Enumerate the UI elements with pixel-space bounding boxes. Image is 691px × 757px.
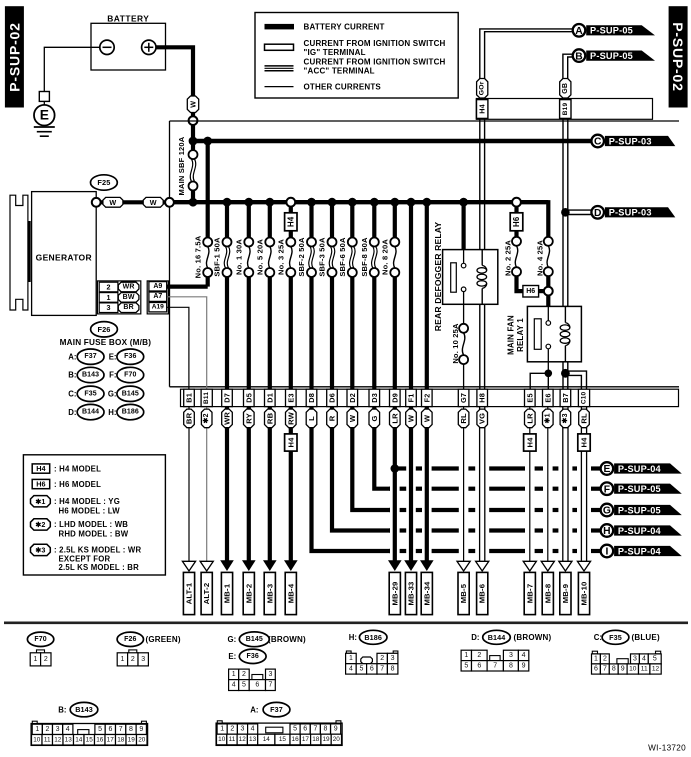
wire F1 column to MB-33 (thick) xyxy=(409,407,413,561)
svg-text:ALT-1: ALT-1 xyxy=(185,582,194,604)
wire G7 column to MB-5 xyxy=(463,407,465,562)
svg-text:F36: F36 xyxy=(124,353,136,360)
svg-text:B19: B19 xyxy=(562,103,569,116)
svg-text:SBF-1 50A: SBF-1 50A xyxy=(213,237,222,277)
arrow to MB-34 xyxy=(420,560,434,571)
svg-text:1: 1 xyxy=(349,655,353,662)
svg-text:P-SUP-05: P-SUP-05 xyxy=(590,26,633,36)
wire relay output to E5/E6 xyxy=(530,373,548,389)
svg-text:BATTERY: BATTERY xyxy=(107,13,149,23)
connector F26 pinout xyxy=(129,650,137,653)
svg-text:(BROWN): (BROWN) xyxy=(268,635,306,644)
svg-text:2: 2 xyxy=(242,671,246,678)
svg-text:D5: D5 xyxy=(244,393,253,403)
svg-text:B1: B1 xyxy=(185,393,194,403)
svg-text:B11: B11 xyxy=(203,392,210,404)
svg-text:L: L xyxy=(307,416,316,421)
svg-text:H: H xyxy=(603,526,610,537)
svg-text:E:: E: xyxy=(228,652,236,661)
svg-text:W: W xyxy=(348,414,357,422)
svg-text:G:: G: xyxy=(108,390,117,399)
svg-text:W: W xyxy=(407,414,416,422)
svg-text:8: 8 xyxy=(324,726,328,733)
svg-text:E: E xyxy=(603,464,610,475)
wire B1 column to ALT-1 xyxy=(188,407,190,562)
svg-text:WR: WR xyxy=(123,284,135,291)
pin H8 / wire color VG xyxy=(477,389,488,406)
svg-text:P-SUP-02: P-SUP-02 xyxy=(670,22,686,91)
svg-text:P-SUP-04: P-SUP-04 xyxy=(618,464,662,474)
svg-text:B:: B: xyxy=(68,371,76,380)
svg-text:No. 8 20A: No. 8 20A xyxy=(381,239,390,275)
svg-text:8: 8 xyxy=(612,666,616,673)
svg-text:RL: RL xyxy=(459,413,468,424)
svg-text:F25: F25 xyxy=(97,178,110,187)
svg-text:OTHER CURRENTS: OTHER CURRENTS xyxy=(304,82,382,91)
svg-text:11: 11 xyxy=(641,666,648,673)
generator GENERATOR box xyxy=(32,192,97,316)
wire IG double line B19/GB to D arrow and coil xyxy=(562,119,564,306)
svg-text:2: 2 xyxy=(131,656,135,663)
svg-text:BATTERY CURRENT: BATTERY CURRENT xyxy=(304,23,385,32)
svg-text:MB-9: MB-9 xyxy=(561,584,570,604)
svg-text:D8: D8 xyxy=(307,393,316,403)
svg-text:RL: RL xyxy=(580,413,589,424)
svg-text:5: 5 xyxy=(242,682,246,689)
svg-text:MAIN SBF 120A: MAIN SBF 120A xyxy=(177,136,186,195)
wire battery positive (thick) xyxy=(156,47,193,97)
svg-text:B143: B143 xyxy=(75,705,93,714)
svg-text:REAR DEFOGGER RELAY: REAR DEFOGGER RELAY xyxy=(433,222,443,332)
wire IG double line GOr/H4 to defogger coil xyxy=(479,119,481,249)
svg-text:B144: B144 xyxy=(488,633,506,642)
svg-text:5: 5 xyxy=(359,665,363,672)
svg-text:2: 2 xyxy=(44,656,48,663)
legend ACC current sample xyxy=(265,65,294,67)
bus wire battery current lower (thick) xyxy=(171,200,548,204)
svg-text:H6: H6 xyxy=(526,288,535,295)
wire C10 double column to MB-10 xyxy=(580,407,582,562)
arrow to MB-33 xyxy=(404,560,418,571)
arrow to ALT-1 xyxy=(182,561,195,571)
svg-text:1: 1 xyxy=(594,655,598,662)
svg-text:W: W xyxy=(422,414,431,422)
wire to arrow I (thick) xyxy=(389,549,390,553)
svg-text:✱3: ✱3 xyxy=(561,413,569,423)
arrow to MB-6 xyxy=(476,561,489,571)
svg-text:2: 2 xyxy=(45,726,49,733)
svg-text:D3: D3 xyxy=(370,393,379,403)
svg-text:6: 6 xyxy=(370,665,374,672)
wire to arrow H (thick) xyxy=(389,528,390,532)
wire A9 to fuse No.16 (thick) xyxy=(167,285,208,289)
wire F2 column to MB-34 (thick) xyxy=(425,407,429,561)
pin D9 / wire color LR xyxy=(390,389,401,406)
svg-text:8: 8 xyxy=(391,665,395,672)
svg-text:No. 1 30A: No. 1 30A xyxy=(235,239,244,275)
M/B top connector band xyxy=(476,99,652,120)
fuse SBF-3 50A column D6 xyxy=(330,202,334,238)
wire IG double line to arrow A xyxy=(480,29,573,79)
legend IG current sample xyxy=(265,44,294,50)
wire E5 column to MB-7 xyxy=(529,407,531,562)
pin D1 / wire color RB xyxy=(265,389,276,406)
wire D2 column corner to arrow G (thick) xyxy=(352,407,390,510)
svg-text:5: 5 xyxy=(98,726,102,733)
svg-text:A: A xyxy=(575,26,583,37)
wire D8 column corner to arrow I (thick) xyxy=(312,407,391,551)
arrow F P-SUP-05 xyxy=(614,484,682,494)
svg-text:3: 3 xyxy=(633,655,637,662)
svg-text:16: 16 xyxy=(96,736,104,743)
pin H4 top band xyxy=(477,100,488,119)
svg-text:D:: D: xyxy=(471,633,479,642)
svg-text:11: 11 xyxy=(229,736,236,743)
svg-text:B186: B186 xyxy=(122,409,139,416)
svg-text:9: 9 xyxy=(621,666,625,673)
svg-text:MAIN FAN: MAIN FAN xyxy=(507,315,516,355)
fuse SBF-6 50A column D2 xyxy=(350,202,354,238)
svg-text:7: 7 xyxy=(268,682,272,689)
svg-text:: LHD MODEL : WB: : LHD MODEL : WB xyxy=(54,520,128,529)
pin F1 / wire color W xyxy=(406,389,417,406)
node open circle No.4/H6 join xyxy=(544,287,553,296)
svg-text:3: 3 xyxy=(56,726,60,733)
svg-text:✱2: ✱2 xyxy=(35,520,45,529)
svg-text:10: 10 xyxy=(33,736,41,743)
svg-text:RELAY 1: RELAY 1 xyxy=(516,318,525,352)
svg-text:MB-8: MB-8 xyxy=(543,583,552,603)
svg-text:H:: H: xyxy=(349,633,357,642)
svg-text:LR: LR xyxy=(390,413,399,424)
legend other currents sample xyxy=(265,86,294,88)
connector F25 oval xyxy=(91,175,118,190)
wire B7 double column to MB-9 xyxy=(562,407,564,562)
svg-text:MB-34: MB-34 xyxy=(422,581,431,606)
pin D8 / wire color L xyxy=(306,389,317,406)
svg-text:✱1: ✱1 xyxy=(35,497,45,506)
arrow A P-SUP-05 xyxy=(586,25,655,35)
junction dot B19 to B7/C10 xyxy=(561,369,570,378)
generator connector pins A9/A7/A19 xyxy=(147,281,168,314)
pin D2 / wire color W xyxy=(347,389,358,406)
arrow to MB-29 xyxy=(388,560,402,571)
relay coil rear defogger on H8 line xyxy=(481,250,483,266)
svg-text:SBF-6 50A: SBF-6 50A xyxy=(338,237,347,277)
svg-text:A:: A: xyxy=(250,706,258,715)
svg-text:RY: RY xyxy=(244,413,253,424)
fuse SBF-8 50A column D3 xyxy=(372,202,376,238)
fuse SBF-1 50A column D7 xyxy=(225,202,229,238)
fuse No. 1 30A column D5 xyxy=(247,202,251,238)
svg-text:No. 4 25A: No. 4 25A xyxy=(536,240,545,276)
svg-text:9: 9 xyxy=(522,662,526,669)
connector F26 oval xyxy=(91,322,118,337)
svg-text:D: D xyxy=(594,208,601,219)
svg-text:F: F xyxy=(604,484,610,495)
svg-text:No. 5 20A: No. 5 20A xyxy=(256,239,265,275)
wire D5 column to MB-2 (thick) xyxy=(247,407,251,561)
relay coil main fan on B19 line xyxy=(564,306,566,322)
fuse No. 10 25A xyxy=(463,304,465,324)
wire D7 column to MB-1 (thick) xyxy=(225,407,229,561)
wire H8 double column to MB-6 xyxy=(479,407,481,562)
svg-text:C:: C: xyxy=(68,390,76,399)
svg-text:3: 3 xyxy=(509,652,513,659)
svg-text:MB-29: MB-29 xyxy=(390,581,399,605)
svg-text:E3: E3 xyxy=(286,393,295,402)
svg-text:1: 1 xyxy=(220,726,224,733)
svg-text:14: 14 xyxy=(263,736,271,743)
svg-text:BW: BW xyxy=(123,294,135,301)
svg-text:6: 6 xyxy=(477,662,481,669)
connector F36 pinout xyxy=(229,669,239,680)
model box H4 on E5 column xyxy=(524,434,536,451)
svg-text:1: 1 xyxy=(232,671,236,678)
svg-text:D:: D: xyxy=(68,408,76,417)
pin E3 / wire color RW xyxy=(286,389,297,406)
svg-text:✱2: ✱2 xyxy=(202,413,210,423)
pin F2 / wire color W xyxy=(422,389,433,406)
svg-text:14: 14 xyxy=(75,736,83,743)
svg-text:5: 5 xyxy=(293,726,297,733)
pin D3 / wire color G xyxy=(369,389,380,406)
svg-text:F26: F26 xyxy=(124,636,136,643)
svg-text:4: 4 xyxy=(522,652,526,659)
ground E xyxy=(39,92,49,102)
legend star2 xyxy=(31,519,51,530)
svg-text:GOr: GOr xyxy=(479,81,486,95)
svg-text:B143: B143 xyxy=(82,372,99,379)
svg-text:10: 10 xyxy=(629,666,637,673)
pin G7 / wire color RL xyxy=(458,389,469,406)
fuse No. 3 25A column E3 xyxy=(289,202,293,238)
legend star1 xyxy=(31,496,51,507)
pin C10 / wire color RL xyxy=(578,389,589,406)
svg-text:6: 6 xyxy=(108,726,112,733)
svg-text:4: 4 xyxy=(66,726,70,733)
page label P-SUP-02 top-left xyxy=(5,6,24,107)
svg-text:F70: F70 xyxy=(124,372,136,379)
svg-text:I: I xyxy=(605,547,608,558)
svg-text:F2: F2 xyxy=(422,393,431,402)
pin B1 / wire color BR xyxy=(184,389,195,406)
wire IG double line to arrow B xyxy=(563,54,573,79)
svg-text:No. 10 25A: No. 10 25A xyxy=(451,323,460,364)
wire generator output W pills xyxy=(96,200,171,204)
wire F1 column (thick) xyxy=(407,198,416,207)
svg-text:No. 16 7.5A: No. 16 7.5A xyxy=(193,235,202,278)
svg-text:BR: BR xyxy=(185,412,194,424)
arrow G P-SUP-05 xyxy=(614,505,682,515)
svg-text:P-SUP-03: P-SUP-03 xyxy=(609,136,652,146)
svg-text:20: 20 xyxy=(333,736,341,743)
model box H4 on C10 column xyxy=(578,434,590,451)
svg-text:12: 12 xyxy=(239,736,247,743)
svg-text:H6: H6 xyxy=(512,216,521,227)
wire No.2 fuse to H6 box lower (thick) xyxy=(517,276,524,291)
svg-text:RB: RB xyxy=(265,412,274,424)
svg-text:: 2.5L KS MODEL : WR: : 2.5L KS MODEL : WR xyxy=(54,545,141,554)
wire D6 column corner to arrow H (thick) xyxy=(332,407,390,531)
svg-text:B144: B144 xyxy=(82,409,99,416)
fuse No. 2 25A xyxy=(512,237,521,246)
svg-text:H6 MODEL : LW: H6 MODEL : LW xyxy=(59,506,121,515)
arrow to MB-1 xyxy=(220,560,234,571)
svg-text:9: 9 xyxy=(139,726,143,733)
main fuse box M/B outline xyxy=(169,121,171,387)
pin D7 / wire color WR xyxy=(222,389,233,406)
arrow to MB-3 xyxy=(263,560,277,571)
svg-text:17: 17 xyxy=(107,736,115,743)
wire D3 column corner to arrow F (thick) xyxy=(374,407,390,489)
svg-text:H4: H4 xyxy=(286,437,295,448)
svg-text:6: 6 xyxy=(594,666,598,673)
svg-text:F:: F: xyxy=(109,371,116,380)
svg-text:"ACC" TERMINAL: "ACC" TERMINAL xyxy=(304,67,375,76)
svg-text:A:: A: xyxy=(68,352,76,361)
svg-text:2: 2 xyxy=(107,283,111,292)
M/B bottom connector band xyxy=(181,389,679,406)
svg-text:B: B xyxy=(575,51,582,62)
svg-text:WR: WR xyxy=(223,412,232,425)
svg-text:B:: B: xyxy=(58,706,66,715)
wire E3 column to MB-4 (thick) xyxy=(289,407,293,561)
junction dot main fan relay output xyxy=(547,362,549,374)
model box H6 lower xyxy=(523,286,539,298)
svg-text:B186: B186 xyxy=(364,633,382,642)
svg-text:GENERATOR: GENERATOR xyxy=(36,252,92,262)
svg-text:: H4 MODEL : YG: : H4 MODEL : YG xyxy=(54,497,120,506)
fuse No. 8 20A column D9 xyxy=(393,202,397,238)
svg-text:3: 3 xyxy=(141,656,145,663)
svg-text:EXCEPT FOR: EXCEPT FOR xyxy=(59,554,111,563)
fuse SBF-2 50A column D8 xyxy=(309,202,313,238)
connector F70 pinout xyxy=(37,650,45,653)
wire A19 to B1 xyxy=(167,307,189,389)
svg-text:D6: D6 xyxy=(328,393,337,403)
svg-text:MB-5: MB-5 xyxy=(459,583,468,603)
arrow E P-SUP-04 xyxy=(614,463,682,473)
svg-text:SBF-2 50A: SBF-2 50A xyxy=(297,237,306,277)
svg-text:MB-7: MB-7 xyxy=(525,584,534,604)
svg-text:A7: A7 xyxy=(153,293,162,300)
arrow to MB-10 xyxy=(577,561,590,571)
wire to arrow F (thick) xyxy=(389,487,390,491)
svg-text:P-SUP-02: P-SUP-02 xyxy=(7,22,23,91)
junction dot D9 to arrow E xyxy=(391,464,400,473)
svg-text:P-SUP-05: P-SUP-05 xyxy=(618,484,661,494)
svg-text:3: 3 xyxy=(268,671,272,678)
svg-text:4: 4 xyxy=(251,726,255,733)
svg-text:E: E xyxy=(40,108,49,123)
svg-text:MB-4: MB-4 xyxy=(286,583,295,603)
node connector circle below W xyxy=(189,116,198,125)
svg-text:LR: LR xyxy=(525,413,534,424)
svg-text:13: 13 xyxy=(249,736,257,743)
svg-text:1: 1 xyxy=(33,656,37,663)
svg-text:H4: H4 xyxy=(525,437,534,448)
svg-text:B145: B145 xyxy=(246,636,263,643)
svg-text:A19: A19 xyxy=(152,304,164,311)
svg-text:5: 5 xyxy=(653,655,657,662)
svg-text:✱3: ✱3 xyxy=(35,546,45,555)
node connector circle on M/B left edge xyxy=(165,198,174,207)
svg-text:MB-33: MB-33 xyxy=(407,581,416,605)
pin B19 top band xyxy=(560,100,571,119)
svg-text:F70: F70 xyxy=(34,636,46,643)
svg-text:18: 18 xyxy=(117,736,125,743)
svg-text:H4: H4 xyxy=(580,437,589,448)
svg-text:No. 2 25A: No. 2 25A xyxy=(504,240,513,276)
wire to arrow E (thick) xyxy=(395,466,406,470)
svg-text:18: 18 xyxy=(312,736,320,743)
arrow to MB-7 xyxy=(523,561,536,571)
pin B11 / wire color *2 xyxy=(201,389,212,406)
svg-text:17: 17 xyxy=(302,736,310,743)
svg-text:C:: C: xyxy=(594,633,602,642)
svg-text:GB: GB xyxy=(562,83,569,94)
svg-text:ALT-2: ALT-2 xyxy=(202,583,211,605)
svg-text:BR: BR xyxy=(123,304,134,311)
svg-text:"IG" TERMINAL: "IG" TERMINAL xyxy=(304,48,366,57)
svg-text:VG: VG xyxy=(478,413,487,424)
pin E5 / wire color LR xyxy=(525,389,536,406)
svg-text:P-SUP-03: P-SUP-03 xyxy=(609,208,652,218)
svg-text:20: 20 xyxy=(138,736,146,743)
wire battery negative to ground xyxy=(44,47,100,91)
svg-text:H4: H4 xyxy=(286,216,295,227)
svg-text:7: 7 xyxy=(313,726,317,733)
svg-text:6: 6 xyxy=(303,726,307,733)
svg-text:RHD MODEL : BW: RHD MODEL : BW xyxy=(59,530,129,539)
svg-text:2: 2 xyxy=(477,652,481,659)
arrow to ALT-2 xyxy=(200,561,213,571)
svg-text:F1: F1 xyxy=(407,393,416,402)
fuse No. 5 20A column D1 xyxy=(268,202,272,238)
fuse MAIN SBF 120A xyxy=(191,124,195,151)
svg-text:CURRENT FROM IGNITION SWITCH: CURRENT FROM IGNITION SWITCH xyxy=(304,39,446,48)
svg-text:F36: F36 xyxy=(247,653,259,660)
svg-text:12: 12 xyxy=(54,736,62,743)
svg-text:7: 7 xyxy=(603,666,607,673)
svg-text:H6: H6 xyxy=(36,480,45,489)
svg-text:F37: F37 xyxy=(84,353,96,360)
svg-text:9: 9 xyxy=(334,726,338,733)
svg-text:8: 8 xyxy=(129,726,133,733)
wire bus2 corner to No.4 fuse (thick) xyxy=(546,202,548,237)
svg-text:1: 1 xyxy=(120,656,124,663)
svg-text:P-SUP-04: P-SUP-04 xyxy=(618,546,662,556)
node open circle bus2 H6 branch xyxy=(512,198,521,207)
fuse No. 4 25A xyxy=(544,237,553,246)
svg-text:G:: G: xyxy=(228,635,237,644)
svg-text:4: 4 xyxy=(642,655,646,662)
svg-text:: H6 MODEL: : H6 MODEL xyxy=(54,480,101,489)
svg-text:R: R xyxy=(328,415,337,421)
svg-text:12: 12 xyxy=(652,666,660,673)
svg-text:1: 1 xyxy=(107,293,111,302)
pin D5 / wire color RY xyxy=(244,389,255,406)
wire IG double line branch to C10 pin xyxy=(567,371,587,389)
svg-text:A9: A9 xyxy=(153,283,162,290)
wire B11 column to ALT-2 xyxy=(206,407,208,562)
svg-text:4: 4 xyxy=(349,665,353,672)
svg-text:No. 3 25A: No. 3 25A xyxy=(277,239,286,275)
wire to arrow G (thick) xyxy=(389,508,390,512)
svg-text:E:: E: xyxy=(109,352,117,361)
wire D1 column to MB-3 (thick) xyxy=(268,407,272,561)
